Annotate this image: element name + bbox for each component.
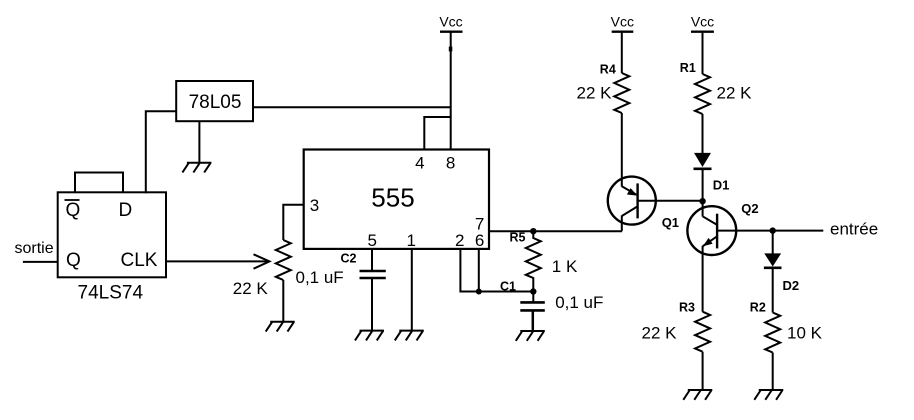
resistor R1 22 K xyxy=(680,61,752,114)
transistor Q1 xyxy=(608,177,679,232)
svg-text:0,1 uF: 0,1 uF xyxy=(296,268,344,287)
potentiometer 22 K xyxy=(233,240,291,298)
wire 555 pin 2 down and right xyxy=(460,249,478,292)
wire 78L05 output to Vcc rail xyxy=(252,106,452,108)
resistor R4 22 K xyxy=(577,62,630,113)
capacitor C1 0,1 uF xyxy=(520,292,603,313)
svg-text:CLK: CLK xyxy=(121,250,158,271)
svg-text:22 K: 22 K xyxy=(577,83,613,102)
node pin7/R5 junction xyxy=(530,228,536,234)
svg-text:Vcc: Vcc xyxy=(611,14,634,30)
svg-text:10 K: 10 K xyxy=(787,323,823,342)
wire potentiometer bottom to ground xyxy=(282,280,284,322)
wire 78L05 input from 74LS74 top xyxy=(146,111,176,193)
svg-text:1 K: 1 K xyxy=(552,257,578,276)
svg-text:3: 3 xyxy=(310,196,319,215)
svg-text:C1: C1 xyxy=(500,280,516,294)
diode D1 xyxy=(694,153,730,192)
wire 555 pin 7 to R5 and Q1 xyxy=(489,230,622,232)
flip-flop U 74LS74 xyxy=(58,192,166,303)
wire R3 bottom to ground xyxy=(702,352,704,390)
wire Vcc rail down to 555 pin 8 xyxy=(450,32,452,150)
wire Qbar-to-D feedback bracket xyxy=(75,173,123,193)
ground (R3) xyxy=(683,390,712,400)
svg-text:6: 6 xyxy=(475,231,484,250)
wire to entree xyxy=(773,230,824,232)
node pin2/pin6 junction xyxy=(476,289,482,295)
wire R1 bottom to D1 xyxy=(702,114,704,154)
svg-text:22 K: 22 K xyxy=(233,279,269,298)
wire 555 pin 1 to ground xyxy=(411,249,413,331)
wire CLK to potentiometer (arrow) xyxy=(166,254,270,268)
svg-text:4: 4 xyxy=(415,154,424,173)
wire R2 bottom to ground xyxy=(772,353,774,391)
ground (78L05) xyxy=(182,163,211,173)
svg-text:0,1 uF: 0,1 uF xyxy=(555,293,603,312)
wire D2 cathode to R2 xyxy=(772,268,774,313)
resistor R5 1 K xyxy=(510,231,578,292)
svg-text:Q: Q xyxy=(66,200,81,221)
svg-text:Vcc: Vcc xyxy=(439,14,462,30)
ground (potentiometer) xyxy=(266,322,295,332)
wire sortie output from Q xyxy=(23,261,58,263)
power Vcc (R1 branch) xyxy=(691,14,714,32)
svg-text:Q: Q xyxy=(66,250,81,271)
svg-text:78L05: 78L05 xyxy=(189,92,242,113)
wire pin 4 to Vcc rail (step) xyxy=(424,117,450,150)
wire Vcc to R1 xyxy=(702,32,704,74)
svg-text:R5: R5 xyxy=(510,231,526,245)
ground (pin 1) xyxy=(395,331,424,341)
regulator 78L05 xyxy=(176,81,253,121)
wire Vcc to R4 xyxy=(621,32,623,73)
svg-text:Q1: Q1 xyxy=(662,215,679,230)
svg-text:Vcc: Vcc xyxy=(691,14,714,30)
capacitor C2 0,1 uF xyxy=(296,252,386,288)
diode D2 xyxy=(764,231,799,293)
svg-text:5: 5 xyxy=(367,231,376,250)
power Vcc (R4 branch) xyxy=(611,14,634,32)
timer U 555 xyxy=(304,150,489,250)
svg-text:R1: R1 xyxy=(680,61,696,75)
wire 78L05 ground stub xyxy=(198,121,200,163)
wire D1 cathode down to Q2 collector xyxy=(702,169,704,217)
wire junction to C1 top xyxy=(479,291,534,293)
svg-text:R3: R3 xyxy=(679,301,695,315)
node D1/Q1 base/Q2 junction xyxy=(699,198,705,204)
svg-text:22 K: 22 K xyxy=(642,323,678,342)
svg-text:1: 1 xyxy=(406,231,415,250)
svg-text:D1: D1 xyxy=(713,177,730,192)
junction blob on Vcc rail xyxy=(449,47,453,52)
power Vcc (555 supply) xyxy=(439,14,462,32)
wire 555 pin 6 down xyxy=(478,249,480,292)
wire 555 pin 5 down to C2 xyxy=(371,249,373,271)
svg-text:555: 555 xyxy=(371,183,414,213)
svg-text:Q2: Q2 xyxy=(741,201,758,216)
wire C2 bottom to ground xyxy=(371,278,373,331)
resistor R3 22 K xyxy=(642,301,711,352)
ground (C2) xyxy=(355,331,384,341)
svg-text:8: 8 xyxy=(446,154,455,173)
resistor R2 10 K xyxy=(750,301,823,353)
wire R4 bottom to Q1 emitter xyxy=(621,113,623,187)
svg-text:2: 2 xyxy=(455,231,464,250)
transistor Q2 xyxy=(687,201,758,312)
node Q2 base/D2 junction xyxy=(770,227,776,233)
svg-text:R2: R2 xyxy=(750,301,766,315)
svg-text:sortie: sortie xyxy=(15,240,54,257)
ground (C1) xyxy=(516,331,545,341)
svg-text:entrée: entrée xyxy=(830,220,878,239)
wire Q2 base to entree node xyxy=(717,230,773,232)
wire Q1 base to D1 node xyxy=(638,200,703,202)
wire C1 bottom to ground xyxy=(532,310,535,331)
svg-text:C2: C2 xyxy=(341,252,357,266)
svg-text:22 K: 22 K xyxy=(717,83,753,102)
svg-text:74LS74: 74LS74 xyxy=(78,283,144,304)
svg-text:R4: R4 xyxy=(600,62,616,76)
svg-text:D: D xyxy=(119,200,133,221)
ground (R2) xyxy=(754,390,783,400)
wire 555 pin 3 to potentiometer top xyxy=(283,205,303,240)
node R5/C1 junction xyxy=(530,288,536,294)
svg-text:D2: D2 xyxy=(783,278,800,293)
